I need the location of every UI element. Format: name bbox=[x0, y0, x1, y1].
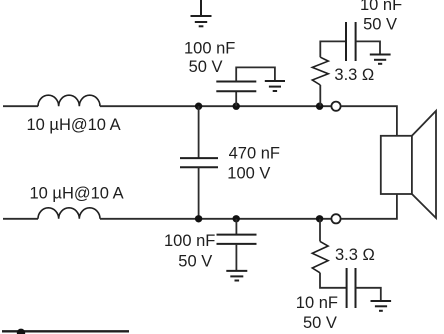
node: bottom junction D (to 470nF) bbox=[195, 215, 202, 222]
capacitor C4 10nF (top, series plates) bbox=[346, 22, 356, 61]
speaker LS1 cone bbox=[412, 111, 436, 218]
inductor L2 10uH (bottom) bbox=[38, 208, 100, 219]
capacitor C5 10nF (bottom, series plates) bbox=[347, 268, 356, 308]
svg-text:10 nF: 10 nF bbox=[296, 294, 338, 312]
ground G4 (top right) bbox=[370, 55, 391, 64]
wire: from C2 bottom plate down to ground G3 bbox=[235, 244, 237, 271]
wire: middle branch upper (junction A down to C3) bbox=[198, 106, 200, 158]
ground G3 (below C2) bbox=[226, 271, 247, 281]
wire: stem from junction B up to C1 bbox=[235, 91, 237, 106]
terminal J2 (open circle, bottom) bbox=[331, 214, 340, 223]
wire: R1 top lead and over to C4 bbox=[320, 41, 346, 57]
wire: top input lead from left edge bbox=[3, 105, 38, 107]
wire: bottom rail from terminal to speaker, up to speaker box bbox=[341, 194, 397, 219]
svg-text:50 V: 50 V bbox=[363, 16, 397, 34]
wire: junction C up lead of R1 bbox=[319, 85, 321, 106]
svg-text:100 V: 100 V bbox=[227, 165, 270, 183]
resistor R2 3.3 ohm (bottom) bbox=[312, 241, 328, 272]
wire: junction F down lead of R2 bbox=[319, 219, 321, 242]
svg-text:50 V: 50 V bbox=[178, 253, 212, 271]
capacitor C3 470nF (middle) bbox=[180, 158, 218, 167]
ground G2 (right of C1) bbox=[265, 81, 285, 91]
wire: middle branch lower (C3 down to bottom rail) bbox=[198, 167, 200, 219]
svg-text:470 nF: 470 nF bbox=[229, 145, 280, 163]
svg-text:100 nF: 100 nF bbox=[184, 39, 235, 57]
svg-text:3.3 Ω: 3.3 Ω bbox=[334, 66, 374, 84]
svg-text:100 nF: 100 nF bbox=[164, 232, 215, 250]
terminal J1 (open circle, top) bbox=[331, 102, 340, 111]
node: bottom junction F (to 3.3 ohm) bbox=[316, 215, 323, 222]
node: junction on clipped bus line bbox=[17, 329, 25, 334]
svg-text:50 V: 50 V bbox=[303, 314, 337, 332]
resistor R1 3.3 ohm (top) bbox=[312, 57, 328, 85]
node: top junction B (to 100nF) bbox=[233, 103, 240, 110]
wire: C5 right plate to ground G5 bbox=[356, 288, 381, 301]
ground G5 (bottom right) bbox=[371, 301, 392, 311]
wire: top rail from L1 to open terminal bbox=[100, 105, 331, 107]
svg-text:10 nF: 10 nF bbox=[360, 0, 402, 14]
wire: from C1 top plate up and right to ground G2 bbox=[236, 67, 275, 81]
wire: C4 right plate to ground G4 bbox=[356, 41, 380, 54]
wire: R2 bottom lead and over to C5 bbox=[320, 273, 347, 288]
svg-text:50 V: 50 V bbox=[189, 58, 223, 76]
wire: top rail from terminal to speaker, down to speaker box bbox=[341, 106, 397, 136]
svg-text:10 µH@10 A: 10 µH@10 A bbox=[27, 116, 121, 134]
capacitor C2 100nF (bottom shunt) bbox=[217, 235, 257, 244]
node: top junction C (to 3.3 ohm) bbox=[316, 103, 323, 110]
svg-text:10 µH@10 A: 10 µH@10 A bbox=[30, 185, 124, 203]
wire: clipped bus line (bottom left, partial figure) bbox=[2, 330, 129, 332]
speaker LS1 driver box bbox=[381, 136, 412, 194]
wire: stem from junction E down to C2 bbox=[235, 219, 237, 235]
capacitor C1 100nF (top shunt) bbox=[216, 82, 256, 92]
inductor L1 10uH (top) bbox=[38, 95, 100, 106]
node: bottom junction E (to 100nF) bbox=[233, 215, 240, 222]
svg-text:3.3 Ω: 3.3 Ω bbox=[335, 246, 375, 264]
ground G1 (top center, stem clipped at top edge) bbox=[191, 0, 212, 26]
wire: bottom rail from L2 to open terminal bbox=[100, 218, 331, 220]
node: top junction A (to 470nF) bbox=[195, 103, 202, 110]
wire: bottom input lead from left edge bbox=[3, 218, 38, 220]
